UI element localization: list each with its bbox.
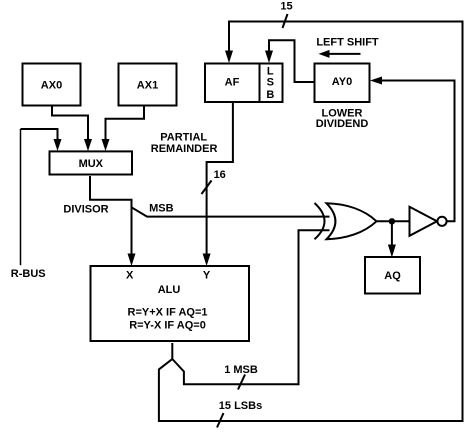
svg-text:Y: Y bbox=[203, 270, 211, 282]
svg-text:AY0: AY0 bbox=[332, 76, 352, 88]
svg-text:AX1: AX1 bbox=[137, 80, 158, 92]
svg-text:PARTIAL: PARTIAL bbox=[160, 131, 207, 143]
svg-text:ALU: ALU bbox=[158, 284, 181, 296]
svg-text:15: 15 bbox=[280, 1, 292, 13]
svg-text:R=Y-X IF AQ=0: R=Y-X IF AQ=0 bbox=[129, 319, 206, 331]
svg-text:X: X bbox=[126, 270, 134, 282]
svg-text:DIVISOR: DIVISOR bbox=[63, 204, 108, 216]
svg-text:DIVIDEND: DIVIDEND bbox=[316, 118, 369, 130]
svg-text:AF: AF bbox=[225, 77, 240, 89]
svg-text:R-BUS: R-BUS bbox=[11, 268, 46, 280]
svg-text:MUX: MUX bbox=[79, 158, 104, 170]
svg-text:LEFT SHIFT: LEFT SHIFT bbox=[316, 37, 379, 49]
svg-text:15 LSBs: 15 LSBs bbox=[219, 400, 262, 412]
svg-text:1 MSB: 1 MSB bbox=[224, 364, 258, 376]
svg-text:B: B bbox=[266, 89, 274, 101]
svg-text:AQ: AQ bbox=[384, 270, 401, 282]
svg-text:L: L bbox=[267, 66, 274, 78]
svg-text:MSB: MSB bbox=[149, 202, 174, 214]
svg-text:AX0: AX0 bbox=[41, 80, 62, 92]
svg-text:S: S bbox=[267, 77, 274, 89]
svg-text:R=Y+X IF AQ=1: R=Y+X IF AQ=1 bbox=[128, 307, 208, 319]
svg-text:REMAINDER: REMAINDER bbox=[151, 143, 218, 155]
svg-text:16: 16 bbox=[214, 169, 226, 181]
